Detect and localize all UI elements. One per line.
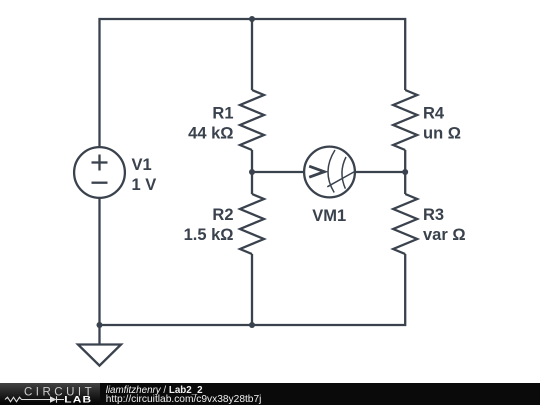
svg-text:VM1: VM1 [312, 207, 346, 225]
wire R2 bottom to bottom rail [251, 254, 253, 325]
node junction bottom middle [249, 322, 255, 328]
ground [78, 345, 121, 366]
footer logo diode glyph [50, 396, 57, 402]
svg-text:1 V: 1 V [132, 176, 157, 194]
wire ground stub [98, 325, 100, 345]
node junction right branch / voltmeter [402, 169, 408, 175]
resistor R2 [240, 194, 264, 254]
node junction top middle [249, 16, 255, 22]
resistor R1 [240, 90, 264, 150]
wire voltmeter right [355, 171, 405, 173]
footer logo panel [0, 383, 100, 405]
svg-text:un Ω: un Ω [423, 125, 461, 143]
svg-text:1.5 kΩ: 1.5 kΩ [184, 226, 234, 244]
svg-text:R1: R1 [212, 105, 233, 123]
svg-text:http://circuitlab.com/c9vx38y2: http://circuitlab.com/c9vx38y28tb7j [106, 394, 262, 405]
svg-text:R3: R3 [423, 206, 444, 224]
resistor R3 [393, 194, 417, 254]
wire R1 bottom to R2 top [251, 150, 253, 194]
wire R4 bottom to R3 top [404, 150, 406, 194]
node junction bottom left / ground [97, 322, 103, 328]
footer logo resistor glyph [5, 397, 50, 402]
svg-text:LAB: LAB [64, 395, 92, 405]
node junction middle branch / voltmeter [249, 169, 255, 175]
svg-text:R2: R2 [212, 206, 233, 224]
wire bottom rail: V1 bottom, bottom wire, right riser to R3 [100, 198, 406, 325]
resistor R4 [393, 90, 417, 150]
wire voltmeter left [252, 171, 304, 173]
wire middle branch from top rail to R1 [251, 19, 253, 90]
voltmeter VM1 [304, 147, 356, 198]
svg-text:44 kΩ: 44 kΩ [188, 125, 233, 143]
svg-text:var Ω: var Ω [423, 226, 466, 244]
footer logo LAB text [64, 395, 92, 405]
svg-text:R4: R4 [423, 105, 445, 123]
svg-text:V1: V1 [132, 156, 152, 174]
wire top rail: left riser, top wire, right riser to R4 [100, 19, 406, 147]
voltage source V1 [74, 147, 125, 198]
footer bar [0, 383, 540, 405]
